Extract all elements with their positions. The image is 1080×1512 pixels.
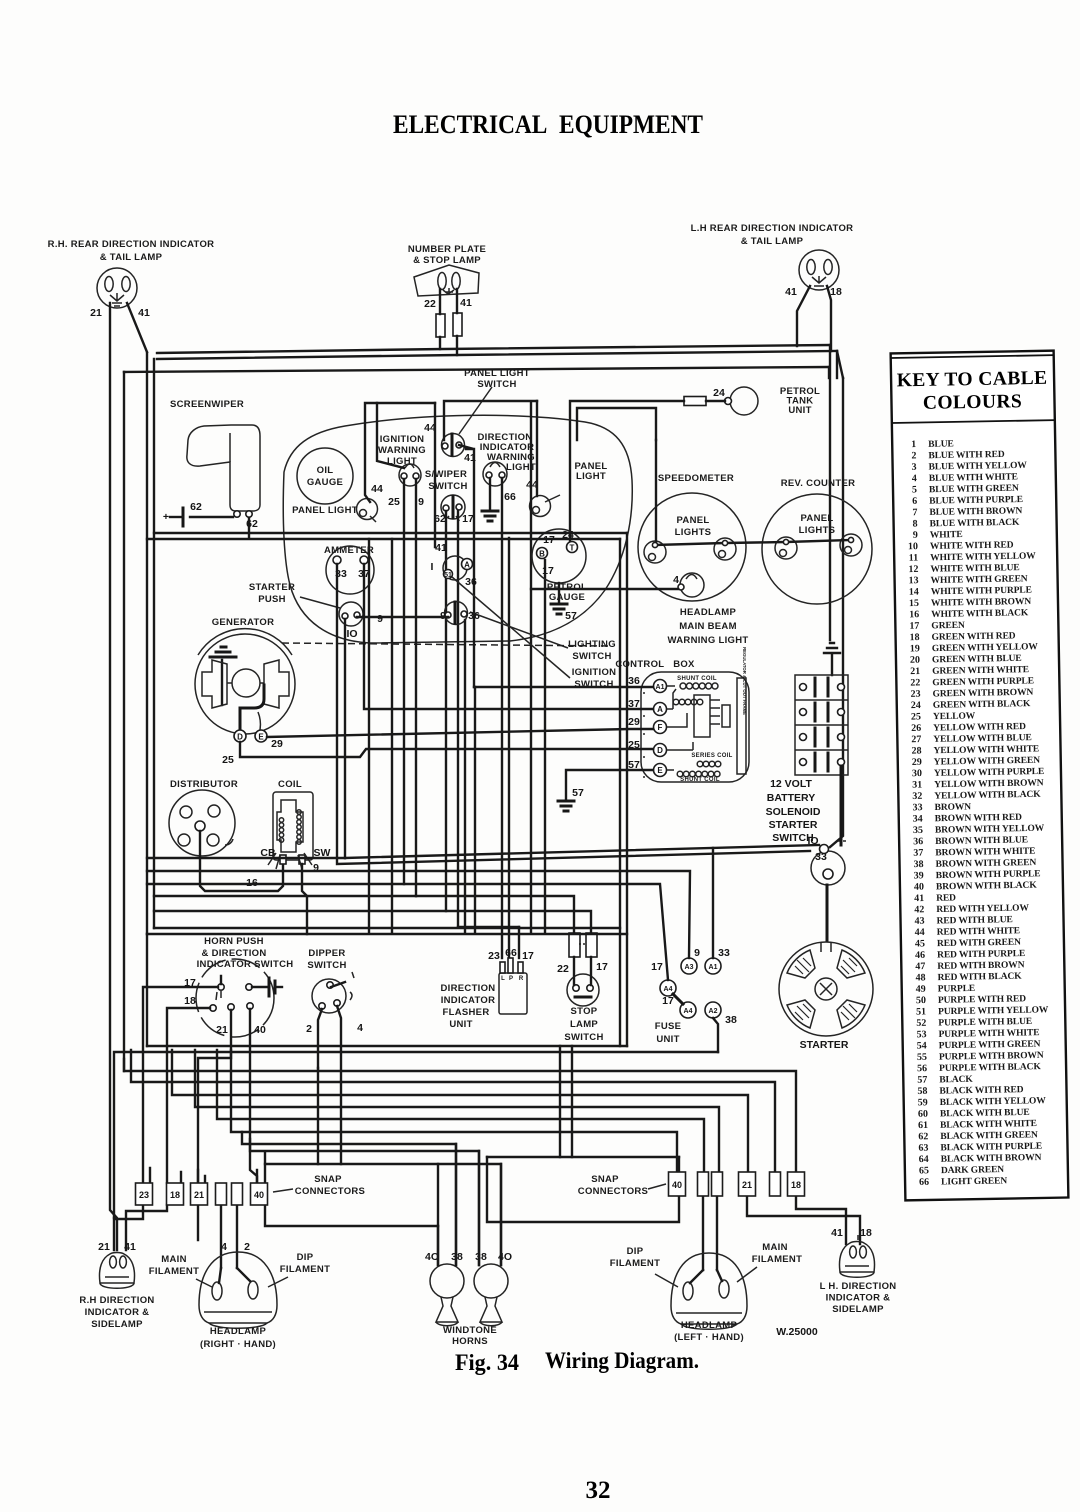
svg-text:GREEN WITH WHITE: GREEN WITH WHITE — [932, 665, 1029, 677]
svg-text:38: 38 — [475, 1251, 487, 1263]
svg-text:REV. COUNTER: REV. COUNTER — [781, 478, 856, 489]
svg-text:33: 33 — [718, 947, 730, 959]
svg-text:40: 40 — [672, 1180, 682, 1190]
svg-text:42: 42 — [914, 904, 924, 915]
svg-text:PANEL: PANEL — [677, 515, 710, 526]
stop lamp area verticals down to box — [560, 1046, 572, 1157]
key to cable colours table — [891, 351, 1069, 1201]
svg-text:10: 10 — [908, 541, 918, 552]
svg-text:WHITE WITH BROWN: WHITE WITH BROWN — [931, 597, 1032, 609]
svg-text:YELLOW: YELLOW — [933, 711, 976, 722]
right snap connector box loop — [487, 1157, 679, 1222]
svg-text:BROWN: BROWN — [934, 802, 971, 813]
LH indicator feeds — [796, 1196, 846, 1244]
svg-text:BLACK WITH RED: BLACK WITH RED — [939, 1085, 1023, 1096]
svg-text:R.H. REAR DIRECTION INDICATO: R.H. REAR DIRECTION INDICATOR — [48, 239, 215, 250]
svg-text:51: 51 — [444, 572, 452, 579]
svg-text:31: 31 — [912, 779, 922, 790]
distributor wire 16 to coil — [200, 831, 283, 891]
svg-text:BROWN WITH YELLOW: BROWN WITH YELLOW — [935, 824, 1045, 836]
svg-text:INDICATOR: INDICATOR — [441, 995, 496, 1006]
svg-text:SNAP: SNAP — [591, 1174, 619, 1185]
svg-text:PURPLE WITH BLUE: PURPLE WITH BLUE — [938, 1017, 1032, 1029]
svg-text:& TAIL LAMP: & TAIL LAMP — [741, 236, 804, 247]
svg-text:3: 3 — [912, 462, 917, 473]
svg-text:41: 41 — [138, 307, 150, 319]
svg-text:25: 25 — [388, 496, 400, 508]
svg-text:GREEN: GREEN — [931, 621, 965, 632]
svg-text:SHUNT COIL: SHUNT COIL — [677, 676, 717, 682]
svg-text:WINDTONE: WINDTONE — [443, 1325, 497, 1336]
svg-text:GENERATOR: GENERATOR — [212, 617, 275, 628]
svg-text:29: 29 — [271, 738, 283, 750]
svg-text:MAIN: MAIN — [762, 1242, 787, 1253]
dipper wires through to box tops — [318, 1068, 341, 1164]
brushes — [202, 660, 227, 708]
svg-text:45: 45 — [915, 938, 925, 949]
svg-text:17: 17 — [596, 961, 608, 973]
svg-text:4: 4 — [673, 574, 679, 586]
svg-text:FILAMENT: FILAMENT — [752, 1254, 802, 1265]
svg-text:59: 59 — [918, 1097, 928, 1108]
svg-text:5: 5 — [912, 484, 917, 495]
svg-text:+: + — [163, 511, 169, 523]
ground below dir warning — [489, 478, 491, 510]
svg-text:PURPLE WITH RED: PURPLE WITH RED — [938, 994, 1026, 1006]
svg-text:12: 12 — [908, 564, 918, 575]
bottom rect lines — [147, 1045, 627, 1047]
svg-text:25: 25 — [222, 754, 234, 766]
svg-text:MAIN BEAM: MAIN BEAM — [679, 621, 737, 632]
svg-text:66: 66 — [504, 491, 516, 503]
svg-text:LIGHT GREEN: LIGHT GREEN — [941, 1176, 1007, 1187]
svg-text:UNIT: UNIT — [449, 1019, 472, 1030]
svg-text:BROWN WITH PURPLE: BROWN WITH PURPLE — [936, 869, 1041, 881]
wire 41 LH — [797, 286, 810, 346]
svg-text:L: L — [501, 976, 505, 982]
svg-text:62: 62 — [918, 1131, 928, 1142]
screenwiper earth lead — [190, 517, 249, 538]
svg-text:21: 21 — [742, 1180, 752, 1190]
svg-text:DIPPER: DIPPER — [308, 948, 345, 959]
svg-text:41: 41 — [460, 297, 472, 309]
svg-text:66: 66 — [919, 1177, 929, 1188]
svg-text:BLUE WITH YELLOW: BLUE WITH YELLOW — [929, 461, 1028, 473]
svg-text:BLACK WITH PURPLE: BLACK WITH PURPLE — [940, 1142, 1042, 1154]
svg-text:LIGHTS: LIGHTS — [799, 525, 836, 536]
extra conn feed stubs — [150, 1168, 205, 1183]
svg-text:36: 36 — [628, 675, 640, 687]
svg-text:P: P — [509, 976, 513, 982]
svg-text:41: 41 — [124, 1241, 136, 1253]
svg-text:57: 57 — [917, 1075, 927, 1086]
panel lights feed wire — [655, 440, 851, 545]
svg-text:BLACK: BLACK — [939, 1075, 973, 1086]
svg-text:HEADLAMP: HEADLAMP — [210, 1326, 267, 1337]
svg-text:(LEFT · HAND): (LEFT · HAND) — [674, 1332, 744, 1343]
svg-text:(RIGHT · HAND): (RIGHT · HAND) — [200, 1339, 276, 1350]
svg-text:BLACK WITH BLUE: BLACK WITH BLUE — [940, 1108, 1030, 1120]
svg-text:35: 35 — [913, 825, 923, 836]
svg-text:GREEN WITH BLUE: GREEN WITH BLUE — [932, 654, 1022, 666]
svg-text:41: 41 — [785, 286, 797, 298]
svg-text:40: 40 — [254, 1024, 266, 1036]
svg-text:57: 57 — [565, 610, 577, 622]
svg-text:GAUGE: GAUGE — [307, 477, 343, 488]
svg-text:51: 51 — [916, 1006, 926, 1017]
svg-text:L H. DIRECTION: L H. DIRECTION — [820, 1281, 897, 1292]
svg-text:64: 64 — [919, 1154, 929, 1165]
control box feed wires — [474, 686, 653, 688]
svg-text:OIL: OIL — [317, 465, 334, 476]
svg-text:ELECTRICAL EQUIPMENT: ELECTRICAL EQUIPMENT — [393, 110, 703, 139]
petrol gauge — [532, 529, 586, 583]
svg-text:61: 61 — [918, 1120, 928, 1131]
svg-text:56: 56 — [917, 1063, 927, 1074]
connector 22 wire — [436, 314, 445, 337]
svg-text:HORNS: HORNS — [452, 1336, 488, 1347]
svg-text:60: 60 — [918, 1109, 928, 1120]
svg-text:11: 11 — [909, 553, 919, 564]
svg-text:WHITE WITH PURPLE: WHITE WITH PURPLE — [931, 586, 1032, 598]
svg-text:50: 50 — [916, 995, 926, 1006]
svg-text:BLUE WITH PURPLE: BLUE WITH PURPLE — [929, 495, 1023, 507]
svg-text:18: 18 — [909, 632, 919, 643]
svg-text:D: D — [237, 733, 243, 742]
svg-text:S/WIPER: S/WIPER — [425, 469, 467, 480]
svg-text:34: 34 — [913, 813, 923, 824]
svg-text:A2: A2 — [709, 1008, 718, 1015]
headlamp RH feeds — [198, 1205, 237, 1268]
svg-text:NUMBER PLATE: NUMBER PLATE — [408, 244, 486, 255]
headlamp main beam warning light — [680, 573, 704, 597]
solenoid to starter heavy lead — [826, 885, 829, 941]
12 volt battery — [795, 675, 848, 775]
svg-text:WHITE WITH YELLOW: WHITE WITH YELLOW — [930, 551, 1036, 563]
svg-text:21: 21 — [90, 307, 102, 319]
svg-text:62: 62 — [246, 518, 258, 530]
ground 57 mid — [558, 801, 574, 811]
horn area enclosing rect — [147, 928, 627, 1046]
svg-text:RED WITH BLUE: RED WITH BLUE — [936, 915, 1012, 926]
svg-text:21: 21 — [910, 666, 920, 677]
svg-text:STOP: STOP — [571, 1006, 598, 1017]
svg-text:FILAMENT: FILAMENT — [610, 1258, 660, 1269]
svg-text:L.H REAR DIRECTION INDICATOR: L.H REAR DIRECTION INDICATOR — [691, 223, 854, 234]
cluster heavy wiring — [365, 403, 435, 502]
svg-text:GREEN WITH RED: GREEN WITH RED — [932, 631, 1016, 642]
coil SW wire down — [302, 864, 307, 934]
svg-text:32: 32 — [586, 1477, 611, 1504]
svg-text:44: 44 — [371, 483, 383, 495]
svg-text:BROWN WITH RED: BROWN WITH RED — [935, 813, 1023, 825]
descending verticals from cluster — [403, 479, 405, 884]
svg-text:IGNITION: IGNITION — [380, 434, 425, 445]
svg-text:18: 18 — [830, 286, 842, 298]
svg-text:PANEL: PANEL — [801, 513, 834, 524]
top harness horizontals — [157, 345, 830, 353]
svg-text:29: 29 — [912, 757, 922, 768]
svg-text:44: 44 — [915, 927, 925, 938]
svg-text:INDICATOR &: INDICATOR & — [85, 1307, 150, 1318]
svg-text:FILAMENT: FILAMENT — [149, 1266, 199, 1277]
svg-text:17: 17 — [662, 995, 674, 1007]
svg-text:2: 2 — [306, 1023, 312, 1035]
svg-text:54: 54 — [917, 1040, 927, 1051]
horn push wires — [143, 976, 257, 1183]
wire 21 long left vertical — [110, 303, 117, 1250]
svg-text:63: 63 — [918, 1143, 928, 1154]
svg-text:E: E — [258, 733, 264, 742]
dashboard outline — [283, 415, 632, 643]
horn feed lines — [242, 1132, 456, 1265]
svg-text:FUSE: FUSE — [655, 1021, 682, 1032]
wire 18 LH — [827, 286, 831, 351]
wire starter push to lighting switch — [345, 617, 448, 858]
svg-text:30: 30 — [912, 768, 922, 779]
svg-text:WHITE WITH GREEN: WHITE WITH GREEN — [931, 574, 1028, 586]
svg-text:21: 21 — [194, 1190, 204, 1200]
svg-text:BLACK WITH YELLOW: BLACK WITH YELLOW — [940, 1096, 1047, 1108]
svg-text:PURPLE WITH WHITE: PURPLE WITH WHITE — [938, 1028, 1039, 1040]
svg-text:27: 27 — [911, 734, 921, 745]
svg-text:2: 2 — [911, 450, 916, 461]
svg-text:RED WITH BLACK: RED WITH BLACK — [937, 972, 1022, 983]
svg-text:43: 43 — [914, 916, 924, 927]
svg-text:17: 17 — [909, 621, 919, 632]
svg-text:DIRECTION: DIRECTION — [441, 983, 496, 994]
svg-text:COLOURS: COLOURS — [923, 391, 1023, 414]
svg-text:BLUE WITH BLACK: BLUE WITH BLACK — [930, 518, 1021, 530]
svg-text:KEY TO CABLE: KEY TO CABLE — [897, 368, 1048, 392]
svg-text:LIGHTS: LIGHTS — [675, 527, 712, 538]
horn push capacitor — [252, 986, 268, 988]
svg-text:38: 38 — [913, 859, 923, 870]
svg-text:1: 1 — [911, 439, 916, 450]
svg-text:HEADLAMP: HEADLAMP — [681, 1320, 738, 1331]
battery to solenoid heavy lead — [840, 766, 843, 845]
wire 33 ammeter to solenoid — [337, 564, 810, 864]
svg-text:9: 9 — [694, 947, 700, 959]
svg-text:41: 41 — [914, 893, 924, 904]
svg-text:STARTER: STARTER — [249, 582, 295, 593]
svg-text:BLUE WITH GREEN: BLUE WITH GREEN — [929, 484, 1019, 496]
svg-text:55: 55 — [917, 1052, 927, 1063]
svg-text:52: 52 — [916, 1018, 926, 1029]
starter — [779, 942, 873, 1036]
svg-text:HEADLAMP: HEADLAMP — [680, 607, 737, 618]
svg-text:YELLOW WITH BLUE: YELLOW WITH BLUE — [933, 733, 1032, 745]
svg-text:YELLOW WITH BROWN: YELLOW WITH BROWN — [934, 778, 1044, 790]
svg-text:21: 21 — [98, 1241, 110, 1253]
svg-text:SIDELAMP: SIDELAMP — [91, 1319, 143, 1330]
svg-text:UNIT: UNIT — [656, 1034, 679, 1045]
svg-text:36: 36 — [468, 610, 480, 622]
svg-text:& STOP LAMP: & STOP LAMP — [413, 255, 481, 266]
svg-text:& DIRECTION: & DIRECTION — [201, 948, 266, 959]
svg-text:22: 22 — [424, 298, 436, 310]
svg-text:A: A — [464, 561, 470, 570]
svg-text:DISTRIBUTOR: DISTRIBUTOR — [170, 779, 238, 790]
generator ground — [221, 660, 223, 705]
svg-text:A4: A4 — [664, 986, 673, 993]
svg-text:WHITE WITH BLUE: WHITE WITH BLUE — [930, 563, 1019, 575]
svg-text:40: 40 — [914, 882, 924, 893]
svg-text:BROWN WITH BLUE: BROWN WITH BLUE — [935, 835, 1028, 847]
svg-text:7: 7 — [912, 507, 917, 518]
svg-text:IGNITION: IGNITION — [572, 667, 617, 678]
svg-text:BROWN WITH BLACK: BROWN WITH BLACK — [936, 881, 1038, 893]
svg-text:BATTERY: BATTERY — [767, 792, 815, 804]
svg-text:F: F — [658, 723, 663, 732]
svg-text:19: 19 — [910, 643, 920, 654]
svg-text:58: 58 — [917, 1086, 927, 1097]
svg-text:17: 17 — [542, 565, 554, 577]
svg-text:WARNING LIGHT: WARNING LIGHT — [668, 635, 749, 646]
svg-text:18: 18 — [184, 995, 196, 1007]
svg-text:18: 18 — [791, 1180, 801, 1190]
left frame verticals — [146, 353, 148, 934]
svg-text:& TAIL LAMP: & TAIL LAMP — [100, 252, 163, 263]
svg-text:32: 32 — [912, 791, 922, 802]
svg-text:BLACK WITH BROWN: BLACK WITH BROWN — [941, 1153, 1042, 1165]
svg-text:57: 57 — [572, 787, 584, 799]
svg-text:PURPLE WITH BLACK: PURPLE WITH BLACK — [939, 1062, 1041, 1074]
svg-text:BLUE: BLUE — [928, 439, 954, 449]
svg-text:46: 46 — [915, 950, 925, 961]
svg-text:29: 29 — [628, 716, 640, 728]
svg-text:17: 17 — [651, 961, 663, 973]
svg-text:Fig. 34: Fig. 34 — [455, 1350, 519, 1375]
right side verticals to battery/solenoid — [829, 345, 831, 640]
svg-text:23: 23 — [488, 950, 500, 962]
svg-text:GREEN WITH BROWN: GREEN WITH BROWN — [933, 688, 1034, 700]
svg-text:33: 33 — [912, 802, 922, 813]
svg-text:E: E — [657, 766, 663, 775]
svg-text:W.25000: W.25000 — [776, 1326, 818, 1338]
svg-text:9: 9 — [418, 496, 424, 508]
svg-text:PURPLE WITH BROWN: PURPLE WITH BROWN — [939, 1051, 1044, 1063]
svg-text:SERIES COIL: SERIES COIL — [691, 753, 732, 759]
svg-text:36: 36 — [913, 836, 923, 847]
svg-text:SIDELAMP: SIDELAMP — [832, 1304, 884, 1315]
headlamp LH feeds — [703, 1196, 717, 1270]
svg-text:SWITCH: SWITCH — [564, 1032, 603, 1043]
svg-text:A: A — [657, 705, 663, 714]
svg-text:28: 28 — [911, 745, 921, 756]
svg-text:65: 65 — [919, 1165, 929, 1176]
svg-text:YELLOW WITH WHITE: YELLOW WITH WHITE — [933, 744, 1039, 756]
dipper wires down — [318, 1006, 341, 1082]
svg-text:FILAMENT: FILAMENT — [280, 1264, 330, 1275]
svg-text:DIP: DIP — [297, 1252, 314, 1263]
horizontals to fuse unit — [147, 871, 690, 958]
speedo panel light bulbs — [644, 541, 666, 563]
svg-text:GREEN WITH YELLOW: GREEN WITH YELLOW — [932, 642, 1039, 654]
svg-text:SHUNT COIL: SHUNT COIL — [680, 777, 720, 783]
svg-text:I: I — [431, 561, 434, 573]
svg-text:48: 48 — [915, 972, 925, 983]
svg-text:T: T — [570, 544, 575, 553]
svg-text:4: 4 — [357, 1022, 363, 1034]
svg-text:SWITCH: SWITCH — [572, 651, 611, 662]
svg-text:RED WITH PURPLE: RED WITH PURPLE — [937, 949, 1025, 961]
unified harness cascade — [124, 1059, 796, 1172]
svg-text:RED WITH BROWN: RED WITH BROWN — [937, 960, 1025, 972]
oil gauge — [297, 448, 353, 504]
svg-text:BLUE WITH RED: BLUE WITH RED — [928, 450, 1005, 461]
svg-text:6: 6 — [912, 496, 917, 507]
svg-text:22: 22 — [910, 677, 920, 688]
extra loom verticals — [369, 539, 475, 933]
svg-text:41: 41 — [435, 542, 447, 554]
svg-text:24: 24 — [713, 387, 725, 399]
svg-text:CONNECTORS: CONNECTORS — [578, 1186, 648, 1197]
svg-text:HORN PUSH: HORN PUSH — [204, 936, 264, 947]
svg-text:BROWN WITH WHITE: BROWN WITH WHITE — [935, 847, 1035, 859]
svg-text:PANEL LIGHT: PANEL LIGHT — [464, 368, 530, 379]
svg-text:12 VOLT: 12 VOLT — [770, 778, 812, 790]
battery ground — [824, 643, 840, 675]
svg-text:PURPLE WITH GREEN: PURPLE WITH GREEN — [939, 1039, 1041, 1051]
svg-text:GREEN WITH BLACK: GREEN WITH BLACK — [933, 699, 1031, 711]
svg-text:GREEN WITH PURPLE: GREEN WITH PURPLE — [932, 676, 1034, 688]
svg-text:39: 39 — [914, 870, 924, 881]
svg-text:R.H DIRECTION: R.H DIRECTION — [79, 1295, 154, 1306]
svg-text:SWITCH: SWITCH — [574, 679, 613, 690]
svg-text:FLASHER: FLASHER — [443, 1007, 490, 1018]
left snap connector box loop — [265, 1164, 438, 1226]
svg-text:RED: RED — [936, 893, 956, 903]
svg-text:YELLOW WITH PURPLE: YELLOW WITH PURPLE — [934, 767, 1044, 779]
svg-text:SWITCH: SWITCH — [307, 960, 346, 971]
A2 wire 38 down — [713, 1018, 718, 1052]
svg-text:22: 22 — [557, 963, 569, 975]
svg-text:WHITE: WHITE — [930, 530, 963, 541]
svg-text:13: 13 — [909, 575, 919, 586]
svg-text:LAMP: LAMP — [570, 1019, 598, 1030]
svg-text:STARTER: STARTER — [769, 819, 818, 831]
svg-text:2: 2 — [244, 1241, 250, 1253]
svg-text:SPEEDOMETER: SPEEDOMETER — [658, 473, 734, 484]
svg-text:21: 21 — [216, 1024, 228, 1036]
svg-text:38: 38 — [725, 1014, 737, 1026]
svg-text:4: 4 — [221, 1241, 227, 1253]
svg-text:66: 66 — [505, 947, 517, 959]
svg-text:RED WITH YELLOW: RED WITH YELLOW — [936, 903, 1029, 915]
svg-text:36: 36 — [465, 576, 477, 588]
armature to D heavy hook — [240, 685, 264, 730]
svg-text:18: 18 — [170, 1190, 180, 1200]
svg-text:SCREENWIPER: SCREENWIPER — [170, 399, 244, 410]
svg-text:WHITE WITH BLACK: WHITE WITH BLACK — [931, 608, 1029, 620]
svg-text:A4: A4 — [684, 1008, 693, 1015]
svg-text:COIL: COIL — [278, 779, 302, 790]
svg-text:9: 9 — [913, 530, 918, 541]
svg-text:UNIT: UNIT — [788, 405, 811, 416]
svg-text:40: 40 — [254, 1190, 264, 1200]
RH indicator feeds — [114, 1205, 143, 1250]
svg-text:RED WITH GREEN: RED WITH GREEN — [937, 938, 1021, 949]
svg-text:49: 49 — [916, 984, 926, 995]
petrol gauge ground — [558, 583, 560, 603]
svg-text:BLUE WITH BROWN: BLUE WITH BROWN — [929, 506, 1022, 518]
svg-text:PANEL LIGHT: PANEL LIGHT — [292, 505, 358, 516]
svg-text:SNAP: SNAP — [314, 1174, 342, 1185]
svg-text:LIGHTING: LIGHTING — [568, 639, 616, 650]
svg-text:14: 14 — [909, 587, 919, 598]
svg-text:B: B — [539, 550, 545, 559]
